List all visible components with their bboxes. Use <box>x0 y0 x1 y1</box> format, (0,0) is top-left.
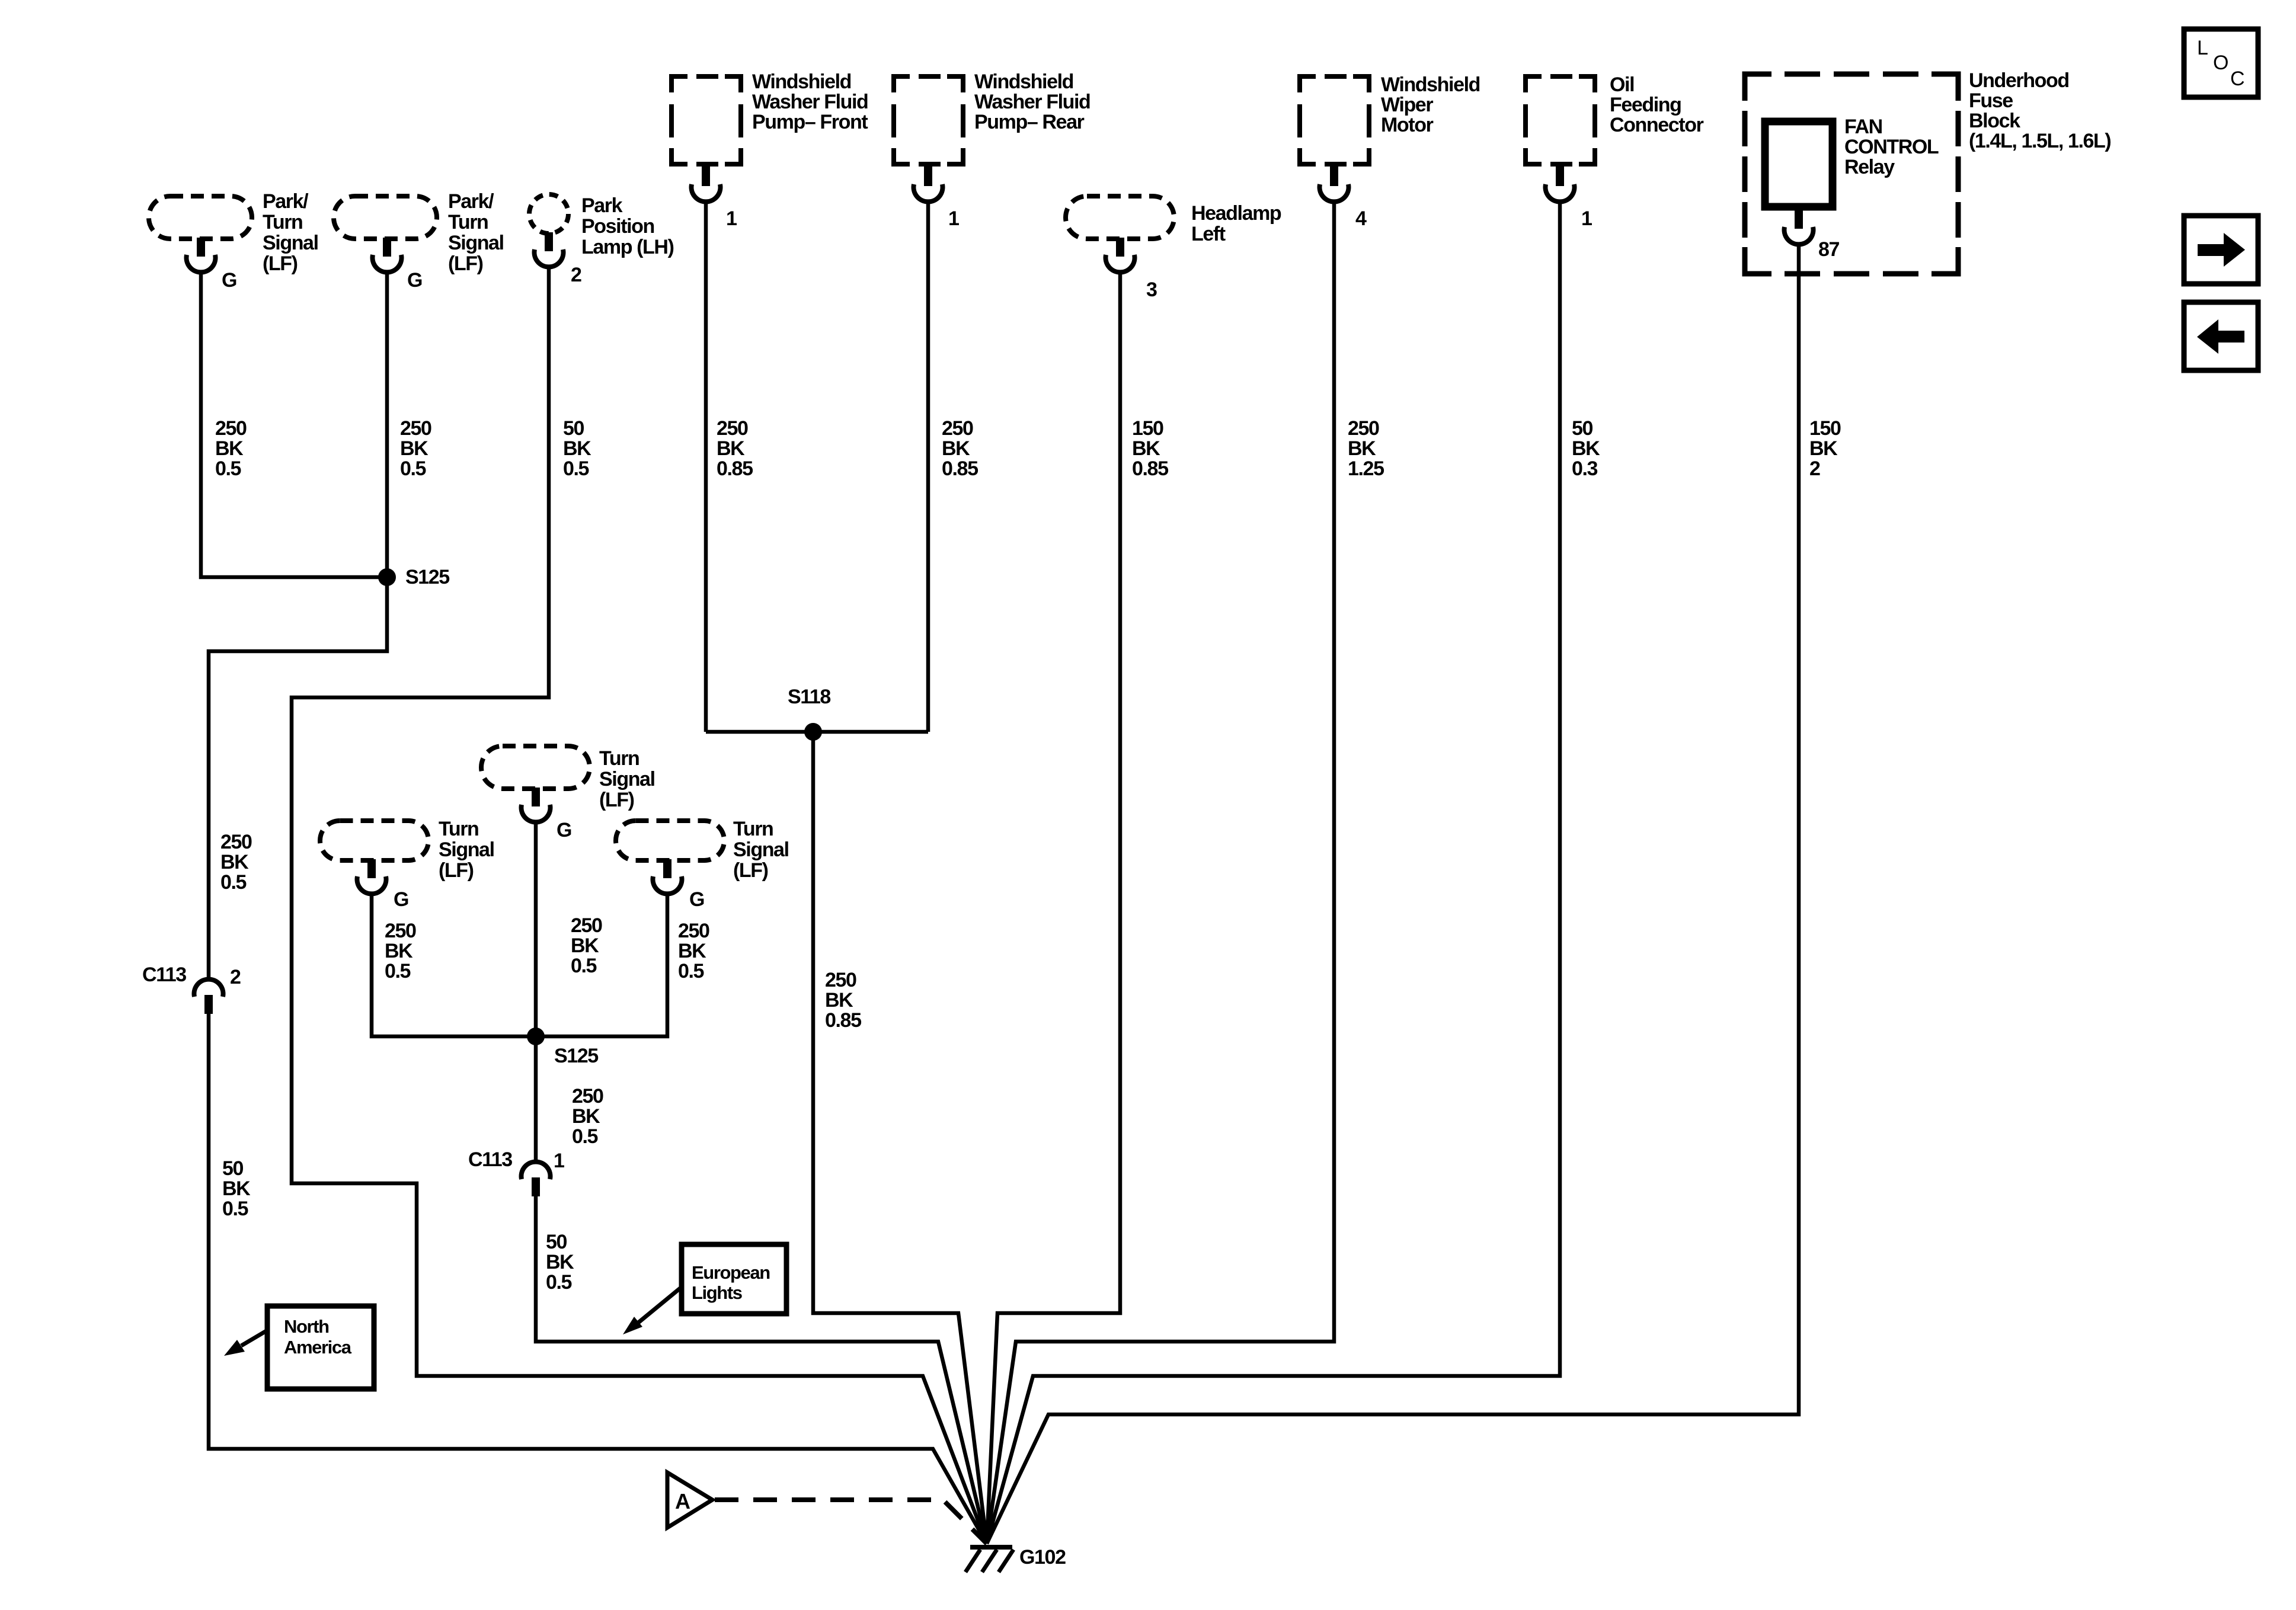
svg-text:Pump– Front: Pump– Front <box>752 111 868 133</box>
svg-text:Park: Park <box>581 194 623 217</box>
wire 50 BK 0.5 from C113 pin 1 to ground fan <box>536 1196 987 1544</box>
pin label 1 of Washer Pump Rear <box>948 207 959 230</box>
wire 250 BK 0.85 from Washer Pump Front to S118 <box>704 200 708 732</box>
svg-text:2: 2 <box>230 966 241 988</box>
connector box Turn Signal (LF) right <box>616 821 724 860</box>
svg-text:1: 1 <box>726 207 737 230</box>
wire label 50 BK 0.5 below C113 pin 1 <box>546 1231 574 1294</box>
svg-text:1.25: 1.25 <box>1348 457 1384 480</box>
svg-text:Relay: Relay <box>1844 156 1895 178</box>
wire label 250 BK 1.25 (wiper) <box>1348 417 1384 480</box>
component box Windshield Washer Fluid Pump- Front <box>671 76 741 164</box>
pin label 2 of C113 <box>230 966 241 988</box>
svg-text:BK: BK <box>400 437 428 460</box>
wire S118 horizontal join <box>706 730 928 734</box>
svg-text:CONTROL: CONTROL <box>1844 136 1939 158</box>
svg-text:50: 50 <box>222 1157 244 1180</box>
svg-text:Signal: Signal <box>439 838 494 861</box>
wire label 250 BK 0.85 (washer rear) <box>942 417 978 480</box>
wire 250 BK 0.85 from S118 to ground fan <box>813 732 987 1544</box>
callout box North America <box>267 1306 374 1389</box>
pin label G #2 <box>407 269 422 292</box>
wire label 250 BK 0.5 (TS right) <box>678 920 709 982</box>
svg-text:(LF): (LF) <box>263 252 298 275</box>
wire label 250 BK 0.85 (below S118) <box>825 969 861 1032</box>
svg-text:BK: BK <box>825 989 853 1012</box>
svg-text:4: 4 <box>1355 207 1367 230</box>
label Windshield Washer Fluid Pump- Rear <box>974 71 1090 133</box>
component box Underhood Fuse Block <box>1745 74 1958 274</box>
wire label 50 BK 0.5 (park position lamp) <box>563 417 591 480</box>
wire 150 BK 2 from FAN CONTROL Relay to ground fan <box>987 243 1799 1544</box>
svg-text:G: G <box>394 888 408 911</box>
wire label 50 BK 0.3 (oil) <box>1572 417 1600 480</box>
svg-text:2: 2 <box>1809 457 1820 480</box>
svg-text:0.5: 0.5 <box>220 871 247 894</box>
svg-text:Wiper: Wiper <box>1381 94 1433 116</box>
svg-text:S118: S118 <box>788 686 830 708</box>
connector box Park/Turn Signal (LF) #2 <box>334 196 437 239</box>
pin label 1 of Washer Pump Front <box>726 207 737 230</box>
svg-text:Feeding: Feeding <box>1610 94 1681 116</box>
splice S125 (top) <box>378 568 396 586</box>
svg-text:Signal: Signal <box>599 768 655 790</box>
wire label 250 BK 0.5 #1 <box>215 417 247 480</box>
pin and socket of Washer Pump Front <box>692 163 721 201</box>
svg-text:(LF): (LF) <box>439 859 474 882</box>
svg-text:C: C <box>2230 68 2244 90</box>
connector box Headlamp Left <box>1066 196 1174 239</box>
pin label 3 of Headlamp Left <box>1146 279 1157 301</box>
svg-text:250: 250 <box>215 417 247 440</box>
svg-text:BK: BK <box>572 1105 600 1128</box>
svg-text:Pump– Rear: Pump– Rear <box>974 111 1085 133</box>
svg-text:250: 250 <box>717 417 748 440</box>
wire label 250 BK 0.5 above C113 pin 2 <box>220 831 252 894</box>
svg-text:1: 1 <box>554 1150 564 1172</box>
svg-text:3: 3 <box>1146 279 1157 301</box>
label FAN CONTROL Relay <box>1844 116 1939 178</box>
pin and socket of Headlamp Left <box>1106 238 1135 272</box>
off-page reference triangle A <box>667 1473 712 1528</box>
splice label S125 (bottom) <box>554 1045 598 1067</box>
splice S118 <box>804 723 822 741</box>
svg-text:Windshield: Windshield <box>1381 73 1480 96</box>
svg-text:BK: BK <box>546 1251 574 1273</box>
component box Oil Feeding Connector <box>1526 76 1595 164</box>
svg-text:Turn: Turn <box>599 747 639 770</box>
svg-text:0.5: 0.5 <box>400 457 426 480</box>
callout box European Lights <box>682 1244 786 1314</box>
svg-text:G: G <box>557 819 571 841</box>
wire label 150 BK 2 (fan relay) <box>1809 417 1841 480</box>
svg-text:G102: G102 <box>1019 1546 1066 1569</box>
svg-text:(1.4L, 1.5L, 1.6L): (1.4L, 1.5L, 1.6L) <box>1969 130 2110 152</box>
wire label 250 BK 0.5 (below S125 bottom) <box>572 1085 603 1148</box>
arrow from North America box <box>224 1330 267 1356</box>
svg-text:Left: Left <box>1191 223 1226 245</box>
svg-text:Fuse: Fuse <box>1969 89 2013 112</box>
legend box LOC <box>2184 29 2258 97</box>
pin label 1 of Oil Feeding Connector <box>1581 207 1592 230</box>
svg-text:0.5: 0.5 <box>546 1271 572 1294</box>
wire 50 BK 0.3 from Oil Feeding Connector to ground fan <box>987 200 1560 1544</box>
label Turn Signal (LF) right <box>733 818 789 882</box>
pin label 1 of C113 <box>554 1150 564 1172</box>
svg-text:0.5: 0.5 <box>571 955 597 977</box>
svg-text:BK: BK <box>222 1177 251 1200</box>
svg-text:BK: BK <box>220 851 249 873</box>
svg-text:50: 50 <box>1572 417 1593 440</box>
wire label 250 BK 0.5 (TS left) <box>385 920 416 982</box>
pin and socket of FAN CONTROL Relay <box>1785 210 1814 244</box>
svg-text:Turn: Turn <box>263 211 302 233</box>
svg-text:Underhood: Underhood <box>1969 69 2069 92</box>
wire label 250 BK 0.5 (TS middle) <box>571 914 602 977</box>
svg-text:Block: Block <box>1969 110 2020 132</box>
svg-text:0.5: 0.5 <box>215 457 241 480</box>
wire 250 BK 0.5 from Turn Signal left to S125 <box>372 892 536 1036</box>
svg-text:Lights: Lights <box>692 1282 742 1303</box>
svg-text:Connector: Connector <box>1610 114 1704 136</box>
label Park/Turn Signal (LF) #2 <box>448 190 504 275</box>
ground symbol G102 <box>965 1547 1013 1572</box>
wire 250 BK 0.5 from Turn Signal middle to S125 <box>534 821 538 1036</box>
wire 250 BK 0.5 from Park/Turn Signal #1 to S125 <box>201 271 387 577</box>
svg-text:0.5: 0.5 <box>572 1125 598 1148</box>
svg-text:G: G <box>222 269 236 292</box>
pin and socket of Wiper Motor <box>1320 163 1349 201</box>
splice label S125 (top) <box>405 566 449 588</box>
connector box Turn Signal (LF) middle <box>481 746 590 789</box>
svg-text:Lamp (LH): Lamp (LH) <box>581 236 674 258</box>
svg-text:Position: Position <box>581 215 654 238</box>
label Park/Turn Signal (LF) #1 <box>263 190 318 275</box>
wire label 250 BK 0.85 (washer front) <box>717 417 753 480</box>
svg-text:87: 87 <box>1818 238 1840 261</box>
wire 250 BK 0.5 from Park/Turn Signal #2 through S125 to C113 pin 2 <box>209 271 387 981</box>
component box Windshield Wiper Motor <box>1300 76 1369 164</box>
svg-text:BK: BK <box>678 940 706 962</box>
wire 250 BK 1.25 from Wiper Motor to ground fan <box>987 200 1334 1544</box>
svg-text:Turn: Turn <box>733 818 773 840</box>
svg-text:0.3: 0.3 <box>1572 457 1598 480</box>
connector label C113 (left) <box>142 964 186 986</box>
svg-text:BK: BK <box>563 437 591 460</box>
svg-text:FAN: FAN <box>1844 116 1882 138</box>
svg-text:S125: S125 <box>554 1045 598 1067</box>
svg-text:0.85: 0.85 <box>942 457 978 480</box>
legend box left arrow <box>2184 302 2258 370</box>
svg-text:G: G <box>689 888 704 911</box>
svg-text:0.85: 0.85 <box>1132 457 1168 480</box>
connector label C113 (bottom) <box>468 1148 512 1171</box>
wire label 50 BK 0.5 below C113 pin 2 <box>222 1157 251 1220</box>
svg-text:0.5: 0.5 <box>222 1198 248 1220</box>
pin label G right <box>689 888 704 911</box>
svg-text:S125: S125 <box>405 566 449 588</box>
legend box right arrow <box>2184 216 2258 284</box>
label Park Position Lamp (LH) <box>581 194 674 258</box>
pin label 4 of Wiper Motor <box>1355 207 1367 230</box>
svg-text:BK: BK <box>215 437 244 460</box>
svg-text:O: O <box>2213 52 2228 74</box>
svg-text:Washer Fluid: Washer Fluid <box>974 91 1090 113</box>
pin label G left <box>394 888 408 911</box>
wire 50 BK 0.5 from C113 pin 2 to ground fan <box>209 1014 987 1544</box>
svg-text:Headlamp: Headlamp <box>1191 202 1281 225</box>
dashed wire from reference A to G102 <box>715 1500 987 1544</box>
arrow from European Lights box <box>623 1287 682 1334</box>
pin and socket of Park/Turn Signal #1 <box>187 238 216 272</box>
ground label G102 <box>1019 1546 1066 1569</box>
svg-text:1: 1 <box>1581 207 1592 230</box>
pin and socket of Turn Signal left <box>357 859 386 894</box>
svg-text:Signal: Signal <box>263 232 318 254</box>
svg-text:A: A <box>675 1489 690 1513</box>
svg-text:150: 150 <box>1132 417 1163 440</box>
svg-text:250: 250 <box>220 831 252 853</box>
splice label S118 <box>788 686 830 708</box>
wire 250 BK 0.5 from Turn Signal right to S125 <box>536 892 667 1036</box>
svg-text:Turn: Turn <box>448 211 488 233</box>
pin label G #1 <box>222 269 236 292</box>
splice S125 (bottom) <box>527 1028 545 1045</box>
inline connector C113 pin 2 <box>194 980 223 1014</box>
label Windshield Wiper Motor <box>1381 73 1480 136</box>
label Turn Signal (LF) middle <box>599 747 655 811</box>
svg-text:250: 250 <box>678 920 709 942</box>
svg-text:BK: BK <box>1572 437 1600 460</box>
svg-text:BK: BK <box>385 940 413 962</box>
label Turn Signal (LF) left <box>439 818 494 882</box>
pin label 2 of Park Position Lamp <box>571 264 581 286</box>
pin and socket of Turn Signal right <box>653 859 682 894</box>
svg-text:G: G <box>407 269 422 292</box>
svg-text:Park/: Park/ <box>263 190 309 213</box>
svg-text:BK: BK <box>717 437 745 460</box>
svg-text:50: 50 <box>546 1231 567 1253</box>
svg-text:Park/: Park/ <box>448 190 494 213</box>
label Headlamp Left <box>1191 202 1281 245</box>
label Underhood Fuse Block <box>1969 69 2110 152</box>
svg-text:Windshield: Windshield <box>974 71 1073 93</box>
svg-text:BK: BK <box>1132 437 1160 460</box>
svg-text:0.85: 0.85 <box>825 1009 861 1032</box>
svg-text:BK: BK <box>1348 437 1376 460</box>
svg-text:(LF): (LF) <box>733 859 768 882</box>
svg-text:Oil: Oil <box>1610 73 1634 96</box>
svg-text:BK: BK <box>571 934 599 957</box>
svg-text:Signal: Signal <box>448 232 504 254</box>
svg-text:BK: BK <box>942 437 970 460</box>
component box Windshield Washer Fluid Pump- Rear <box>894 76 963 164</box>
svg-text:250: 250 <box>572 1085 603 1108</box>
wire label 150 BK 0.85 (headlamp) <box>1132 417 1168 480</box>
svg-text:(LF): (LF) <box>599 789 634 811</box>
wire 250 BK 0.5 from S125 to C113 pin 1 <box>534 1036 538 1163</box>
pin label 87 <box>1818 238 1840 261</box>
connector box Park/Turn Signal (LF) #1 <box>149 196 252 239</box>
pin and socket of Park/Turn Signal #2 <box>373 238 402 272</box>
pin label G middle <box>557 819 571 841</box>
svg-text:0.85: 0.85 <box>717 457 753 480</box>
wire 50 BK 0.5 from Park Position Lamp to ground fan <box>292 265 987 1544</box>
svg-text:250: 250 <box>385 920 416 942</box>
svg-text:0.5: 0.5 <box>385 960 411 982</box>
svg-text:50: 50 <box>563 417 584 440</box>
svg-text:0.5: 0.5 <box>678 960 704 982</box>
wire label 250 BK 0.5 #2 <box>400 417 431 480</box>
svg-text:Turn: Turn <box>439 818 478 840</box>
svg-text:Washer Fluid: Washer Fluid <box>752 91 868 113</box>
pin and socket of Oil Feeding Connector <box>1546 163 1575 201</box>
svg-text:150: 150 <box>1809 417 1841 440</box>
svg-text:250: 250 <box>571 914 602 937</box>
svg-text:2: 2 <box>571 264 581 286</box>
relay box FAN CONTROL Relay <box>1765 121 1833 207</box>
svg-text:North: North <box>284 1316 329 1337</box>
svg-text:L: L <box>2197 37 2208 59</box>
svg-text:250: 250 <box>825 969 856 991</box>
svg-text:1: 1 <box>948 207 959 230</box>
svg-text:250: 250 <box>942 417 973 440</box>
pin and socket of Park Position Lamp <box>535 232 564 267</box>
svg-text:0.5: 0.5 <box>563 457 589 480</box>
svg-text:Windshield: Windshield <box>752 71 851 93</box>
svg-text:(LF): (LF) <box>448 252 483 275</box>
svg-text:Motor: Motor <box>1381 114 1434 136</box>
wire 150 BK 0.85 from Headlamp Left to ground fan <box>987 271 1120 1544</box>
svg-text:C113: C113 <box>142 964 186 986</box>
svg-text:250: 250 <box>1348 417 1379 440</box>
svg-text:Signal: Signal <box>733 838 789 861</box>
label Windshield Washer Fluid Pump- Front <box>752 71 868 133</box>
connector circle Park Position Lamp (LH) <box>529 194 568 233</box>
svg-text:European: European <box>692 1262 770 1283</box>
svg-text:BK: BK <box>1809 437 1838 460</box>
svg-text:C113: C113 <box>468 1148 512 1171</box>
connector box Turn Signal (LF) left <box>320 821 428 860</box>
label Oil Feeding Connector <box>1610 73 1704 136</box>
inline connector C113 pin 1 <box>522 1162 551 1196</box>
svg-text:America: America <box>284 1337 352 1358</box>
pin and socket of Turn Signal middle <box>522 788 551 822</box>
wire 250 BK 0.85 from Washer Pump Rear to S118 <box>926 200 930 732</box>
svg-text:250: 250 <box>400 417 431 440</box>
pin and socket of Washer Pump Rear <box>914 163 943 201</box>
